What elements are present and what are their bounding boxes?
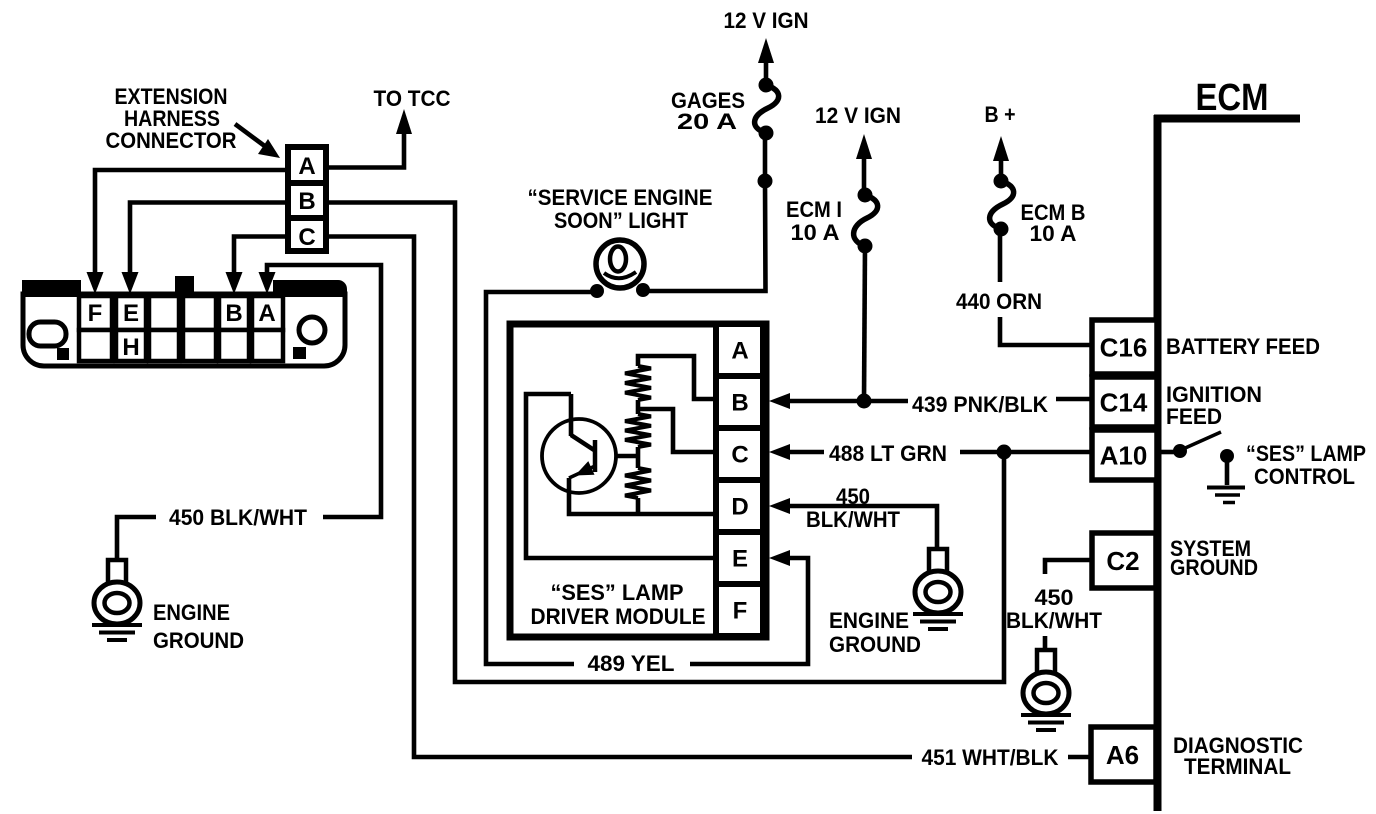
svg-text:C: C <box>731 442 748 469</box>
terminal A6 <box>1091 727 1156 782</box>
svg-text:450: 450 <box>1035 585 1074 610</box>
wire bulb left to 489 YEL to module E <box>486 292 597 664</box>
svg-text:BATTERY FEED: BATTERY FEED <box>1166 334 1320 359</box>
connector ALDL cells <box>79 296 112 330</box>
wire resistor top to pin B <box>638 356 714 399</box>
svg-text:A: A <box>258 300 275 327</box>
svg-text:“SES” LAMP: “SES” LAMP <box>551 580 684 605</box>
svg-text:F: F <box>88 300 103 327</box>
wire fuse ECM I down to 439 splice <box>864 246 865 401</box>
wire J1-A to ALDL F <box>95 170 288 275</box>
svg-text:A: A <box>731 338 748 365</box>
arrow into ALDL F <box>87 272 104 294</box>
bulb right terminal dot <box>636 283 650 297</box>
resistor R2 <box>625 414 651 447</box>
svg-text:C16: C16 <box>1100 332 1148 362</box>
wire 488 LT GRN to A10 <box>788 450 824 455</box>
wire R1-R2 stub with pin C tap <box>636 400 641 414</box>
connector ALDL body <box>23 294 345 366</box>
svg-text:B: B <box>731 390 748 417</box>
engine ground G3 ring terminal <box>1037 650 1055 673</box>
svg-text:CONTROL: CONTROL <box>1254 464 1355 489</box>
fuse ECM I 10 A <box>854 195 878 246</box>
resistor R1 <box>625 366 651 400</box>
module connector cells <box>716 324 763 376</box>
wire fuse to splice S1 <box>763 133 768 181</box>
svg-text:440 ORN: 440 ORN <box>956 289 1042 314</box>
arrow into ALDL E <box>122 272 139 294</box>
svg-text:C: C <box>298 224 315 251</box>
svg-text:E: E <box>732 546 748 573</box>
module SES lamp driver box <box>510 324 766 637</box>
svg-text:ENGINE: ENGINE <box>829 608 909 633</box>
arrow up 12V IGN 2 <box>856 134 872 159</box>
arrow into module pin C <box>769 444 790 460</box>
wire collector to pin E <box>526 394 714 558</box>
svg-text:CONNECTOR: CONNECTOR <box>106 128 237 153</box>
terminal C14 <box>1092 377 1157 427</box>
svg-text:C2: C2 <box>1106 546 1139 576</box>
svg-text:10 A: 10 A <box>1030 221 1077 246</box>
svg-text:C14: C14 <box>1100 387 1148 417</box>
terminal A10 <box>1092 430 1157 480</box>
svg-text:DRIVER MODULE: DRIVER MODULE <box>531 604 706 629</box>
arrow into module pin B <box>769 393 790 409</box>
wire R2-R3 stub <box>636 447 641 468</box>
svg-text:SOON” LIGHT: SOON” LIGHT <box>554 208 689 233</box>
arrow into ALDL B <box>226 272 243 294</box>
arrow into module pin D <box>769 498 790 514</box>
svg-text:BLK/WHT: BLK/WHT <box>1006 608 1103 633</box>
leader arrow to extension harness connector <box>235 124 266 147</box>
wire J1-A to TO TCC <box>326 130 404 168</box>
svg-text:12 V IGN: 12 V IGN <box>815 103 901 128</box>
svg-text:F: F <box>733 598 748 625</box>
resistor R3 <box>625 468 651 498</box>
wire ALDL-A to 450 BLK/WHT <box>267 265 381 517</box>
svg-text:A10: A10 <box>1100 440 1148 470</box>
wire 440 ORN upper <box>998 229 1003 282</box>
svg-text:A6: A6 <box>1106 740 1139 770</box>
wire 439 PNK/BLK to C14 <box>788 399 908 404</box>
svg-text:451 WHT/BLK: 451 WHT/BLK <box>922 745 1059 770</box>
ALDL right round hole <box>299 317 325 343</box>
ground at SES lamp control switch <box>1207 486 1245 490</box>
terminal C2 <box>1092 533 1156 588</box>
svg-text:GROUND: GROUND <box>1170 555 1258 580</box>
wire splice S1 to bulb right terminal <box>649 181 766 291</box>
splice dot S1 <box>758 174 773 189</box>
svg-text:ECM: ECM <box>1196 77 1269 119</box>
svg-text:450 BLK/WHT: 450 BLK/WHT <box>169 505 308 530</box>
junction dot 488/A10 <box>997 445 1012 460</box>
svg-text:ENGINE: ENGINE <box>153 600 230 625</box>
svg-text:“SERVICE ENGINE: “SERVICE ENGINE <box>528 185 713 210</box>
terminal C16 <box>1092 320 1157 374</box>
splice dot on 439 PNK/BLK <box>857 394 872 409</box>
wire 450 BLK/WHT to engine ground G1 <box>117 517 156 562</box>
transistor Q1 collector <box>571 435 594 450</box>
switch SES lamp control <box>1161 450 1174 455</box>
wire J1-C to 451 WHT/BLK / A6 <box>326 237 912 758</box>
svg-text:D: D <box>731 494 748 521</box>
fuse ECM B 10 A <box>990 181 1014 229</box>
transistor Q1 emitter <box>569 466 595 478</box>
svg-text:TO TCC: TO TCC <box>374 86 451 111</box>
wire base tap <box>594 454 638 459</box>
svg-text:20 A: 20 A <box>677 109 737 134</box>
svg-text:FEED: FEED <box>1166 404 1222 429</box>
wire J1-B to ALDL E <box>130 203 288 276</box>
bulb left terminal dot <box>590 284 604 298</box>
ALDL bottom notches <box>57 348 69 360</box>
svg-text:A: A <box>298 153 315 180</box>
svg-text:E: E <box>123 300 139 327</box>
svg-text:B: B <box>298 188 315 215</box>
wire C2 ground stem <box>1043 636 1048 652</box>
wire J1-C to ALDL B <box>234 237 288 276</box>
lamp SES bulb <box>596 240 644 288</box>
wire 440 ORN to C16 <box>1000 317 1092 345</box>
arrow into module pin E <box>769 550 790 566</box>
svg-text:439 PNK/BLK: 439 PNK/BLK <box>912 392 1048 417</box>
svg-text:450: 450 <box>836 484 870 509</box>
svg-text:ECM I: ECM I <box>786 197 842 222</box>
engine ground G2 ring terminal <box>929 549 947 572</box>
fuse GAGES 20 A <box>755 85 779 133</box>
svg-text:“SES” LAMP: “SES” LAMP <box>1246 441 1366 466</box>
svg-text:B: B <box>225 300 242 327</box>
svg-text:10 A: 10 A <box>791 220 840 245</box>
wire emitter to pin D <box>569 478 714 514</box>
engine ground G1 ring terminal <box>108 560 126 583</box>
wire 450 BLK/WHT module D to engine ground G2 <box>788 506 937 551</box>
arrow to TCC <box>396 109 412 134</box>
transistor Q1 base bar <box>593 440 598 472</box>
svg-text:TERMINAL: TERMINAL <box>1184 754 1291 779</box>
ALDL left oval hole <box>29 322 66 346</box>
svg-text:H: H <box>122 334 139 361</box>
wire J1-B to 488 junction (node at A10 line) <box>326 203 1004 683</box>
svg-text:488 LT GRN: 488 LT GRN <box>829 441 947 466</box>
svg-text:BLK/WHT: BLK/WHT <box>806 507 901 532</box>
svg-text:489 YEL: 489 YEL <box>588 651 675 676</box>
ECM boundary line <box>1154 115 1300 123</box>
connector J1 extension harness (cells A B C) <box>288 147 326 251</box>
wire C2 pigtail <box>1045 560 1092 574</box>
transistor Q1 circle <box>542 419 616 493</box>
svg-text:12 V IGN: 12 V IGN <box>724 8 809 33</box>
arrow up 12V IGN <box>758 38 774 63</box>
svg-text:GROUND: GROUND <box>829 632 921 657</box>
svg-text:GROUND: GROUND <box>153 628 244 653</box>
wire R3 bottom to emitter rail <box>636 498 641 514</box>
arrow up B+ <box>993 136 1009 161</box>
svg-text:B +: B + <box>985 102 1016 127</box>
arrow into ALDL A <box>259 272 276 294</box>
